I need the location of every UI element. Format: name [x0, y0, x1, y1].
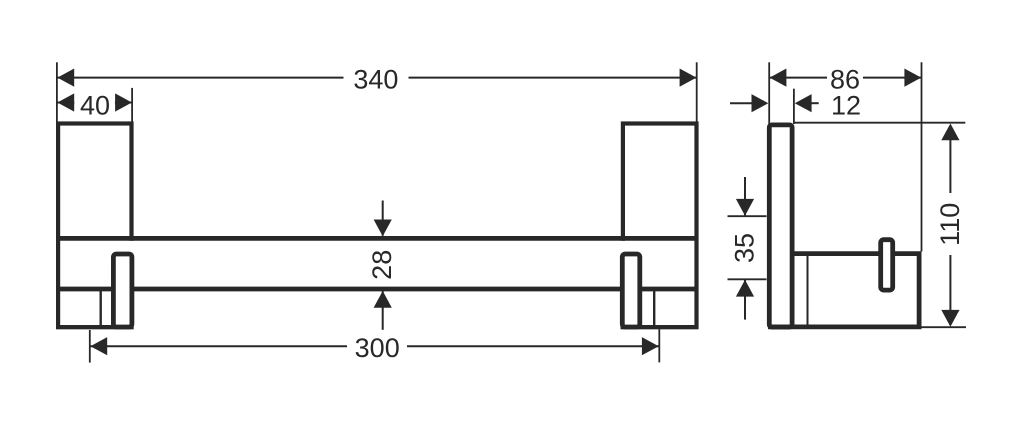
arrow 35 down — [736, 199, 754, 216]
dimension line 300 — [90, 345, 347, 347]
dimension 28 upper line — [382, 201, 384, 236]
rail top edge — [56, 236, 698, 241]
svg-text:28: 28 — [367, 250, 397, 280]
right clip — [622, 254, 640, 327]
extension line 110 bottom — [922, 326, 967, 328]
extension line 300 right — [658, 329, 660, 362]
arrow 28 up — [374, 291, 392, 308]
extension line 35 bottom — [728, 278, 767, 280]
left clip — [113, 254, 131, 327]
svg-text:35: 35 — [729, 233, 759, 263]
svg-text:40: 40 — [80, 91, 110, 121]
right post inner thin line — [653, 289, 655, 327]
dimension line 110 lower — [949, 255, 951, 312]
extension line 340 left — [56, 62, 58, 124]
rail bottom edge — [56, 287, 698, 292]
svg-text:110: 110 — [935, 203, 965, 246]
arrow 110 up — [941, 124, 959, 141]
extension line 340 right — [696, 62, 698, 124]
dimension line 110 upper — [949, 139, 951, 193]
arrow 300 right — [642, 337, 659, 355]
wall plate (side view) — [769, 125, 792, 327]
svg-text:340: 340 — [353, 64, 398, 94]
svg-text:300: 300 — [355, 333, 400, 363]
arrow 28 down — [374, 220, 392, 237]
extension line 110 top — [793, 122, 965, 124]
extension line 300 left — [89, 330, 91, 363]
arrow 35 up — [736, 280, 754, 297]
extension line 40 right — [131, 88, 133, 122]
arrow 110 down — [941, 310, 959, 327]
dimension line 40 — [57, 102, 131, 104]
rail cross-section (side view) — [881, 240, 893, 290]
arrow 12 left (outside, pointing right) — [752, 94, 769, 112]
dimension 35 upper line — [744, 177, 746, 215]
dimension line 340 — [57, 77, 343, 79]
arrow 40 right — [115, 93, 132, 111]
extension line 12 right — [793, 89, 795, 124]
right post bottom edge — [621, 325, 699, 329]
extension line 86 right — [921, 62, 923, 251]
arm (side view) — [768, 254, 919, 327]
extension line 86 left — [768, 62, 770, 124]
extension line 35 top — [728, 215, 767, 217]
arrow 12 right (outside, pointing left) — [795, 94, 812, 112]
arm inner thin line — [807, 256, 809, 325]
dimension 12 left tail — [730, 102, 752, 104]
label 40 background — [74, 91, 115, 116]
arrow 86 right — [904, 69, 921, 87]
dimension 35 lower line — [744, 280, 746, 320]
rail band mask — [61, 241, 694, 287]
left post inner thin line — [99, 289, 101, 327]
arrow 86 left — [770, 69, 787, 87]
left post bottom edge — [56, 325, 134, 329]
left post — [58, 124, 131, 328]
arrow 40 left — [57, 93, 74, 111]
dimension line 86 — [770, 77, 827, 79]
arrow 340 left — [57, 69, 74, 87]
right post — [623, 124, 697, 328]
arrow 340 right — [680, 69, 697, 87]
dimension 28 lower line — [382, 291, 384, 330]
svg-text:12: 12 — [831, 91, 861, 121]
dimension 12 right tail — [811, 102, 819, 104]
arrow 300 left — [90, 337, 107, 355]
